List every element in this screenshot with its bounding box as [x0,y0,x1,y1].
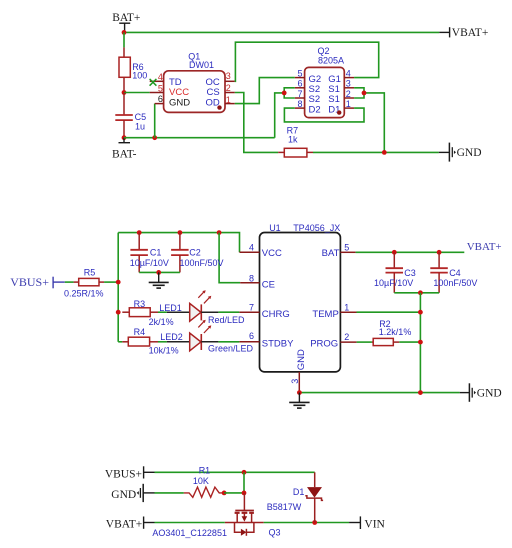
junction PROG node [418,340,423,345]
svg-text:10µF/10V: 10µF/10V [374,278,413,288]
svg-text:VCC: VCC [262,248,282,259]
wire top rail [118,233,239,253]
svg-text:VBUS+: VBUS+ [10,275,49,289]
wire C3 C4 link [394,292,439,294]
svg-text:3: 3 [346,79,351,89]
junction BAT+ node [122,30,127,35]
svg-text:C4: C4 [449,268,461,278]
no-connect X on pin 4 [150,79,157,86]
pin 6 S2 stub [295,87,305,89]
junction D1 node [312,520,317,525]
svg-text:10µF/10V: 10µF/10V [130,258,169,268]
wire column to R4 [118,341,122,343]
svg-text:R4: R4 [134,327,146,337]
svg-text:GND: GND [111,489,136,501]
svg-text:PROG: PROG [310,339,338,350]
svg-text:VBAT+: VBAT+ [452,27,489,39]
svg-text:CHRG: CHRG [262,309,290,320]
svg-text:BAT+: BAT+ [112,12,140,24]
svg-text:2k/1%: 2k/1% [149,317,174,327]
ground port GND (top) [439,143,482,162]
wire GND to R1 [155,492,184,494]
svg-text:6: 6 [297,79,302,89]
svg-text:C5: C5 [135,112,147,122]
svg-text:5: 5 [297,69,302,79]
wire to DW01 VCC pin [124,92,150,94]
svg-text:CE: CE [262,280,275,291]
svg-text:TP4056_JX: TP4056_JX [293,223,340,233]
pin 2 S1 stub [344,97,354,99]
wire BAT+ rail to VBAT+ [124,31,439,33]
junction TEMP node [418,310,423,315]
transistor Q3 AO3401 [152,493,280,538]
pin 1 D1 stub [344,107,354,109]
pin 1 OD stub [225,103,235,105]
pin 5 BAT stub [340,251,355,253]
stray junction dot inside Q1 [217,105,221,109]
wire BAT- rail [124,137,275,139]
pin 6 GND stub [155,103,164,105]
pin 4 VCC stub [240,251,260,253]
svg-text:CS: CS [206,87,219,98]
junction earth node [156,270,161,275]
svg-text:DW01: DW01 [189,60,214,70]
svg-text:VBAT+: VBAT+ [106,519,143,531]
svg-text:4: 4 [249,243,254,253]
svg-text:5: 5 [158,83,163,93]
wire LED1 to CHRG [218,311,239,313]
wire R2 to GND column [399,341,420,343]
pin 4 G1 stub [344,77,354,79]
junction C3 node [392,250,397,255]
svg-text:3: 3 [290,379,300,384]
svg-text:6: 6 [249,331,254,341]
junction S1 node [362,91,367,96]
IC U1 TP4056_JX [239,223,356,393]
wire GND column [419,293,421,393]
IC U Q1 DW01 [150,51,235,112]
svg-text:D2: D2 [309,104,321,115]
junction CE node [217,230,222,235]
junction R1 node [222,491,227,496]
port BAT- [112,138,137,161]
svg-text:D1: D1 [293,487,305,497]
svg-text:U1: U1 [269,223,281,233]
svg-text:GND: GND [477,388,502,400]
svg-text:VBAT+: VBAT+ [467,241,502,253]
IC Q2 8205A [295,46,354,118]
junction node R6/C5/VCC [122,90,127,95]
LED1 Red/LED [159,290,245,325]
wire VBUS+ row [155,471,315,473]
svg-text:VCC: VCC [169,87,189,98]
junction gate node [242,491,247,496]
pin 4 TD stub [150,80,164,82]
LED2 Green/LED [160,320,253,354]
stray junction dot inside Q2 [337,110,341,114]
pin 3 S1 stub [344,87,354,89]
junction C4 node [437,250,442,255]
junction S2 node [282,91,287,96]
svg-text:VBUS+: VBUS+ [105,468,142,480]
svg-text:C3: C3 [404,268,416,278]
svg-text:6: 6 [158,94,163,104]
svg-text:1u: 1u [135,122,145,132]
pin 6 STDBY stub [239,341,259,343]
pin 7 CHRG stub [239,311,259,313]
resistor R6 [119,47,147,92]
wire gate drop [243,472,245,493]
svg-text:5: 5 [344,243,349,253]
wire PROG to R2 [357,341,372,343]
junction R3 node [116,310,121,315]
svg-text:0.25R/1%: 0.25R/1% [64,289,104,299]
resistor R4 [122,327,178,356]
ground earth symbol (C1 C2) [149,272,169,288]
wire VCC column [117,233,119,342]
svg-text:LED1: LED1 [159,303,182,313]
wire Q3 to VIN [264,522,349,524]
svg-text:R1: R1 [199,466,211,476]
wire D2 to D1 loop [284,108,364,122]
wire R5 to node [104,281,118,283]
svg-text:Red/LED: Red/LED [208,315,245,325]
wire R1 to gate node [224,492,244,494]
svg-text:Green/LED: Green/LED [208,343,254,353]
svg-text:GND: GND [296,349,307,370]
svg-text:R3: R3 [134,299,146,309]
port VIN [349,516,385,530]
pin 5 G2 stub [295,77,305,79]
resistor R2 [372,319,411,346]
svg-text:10K: 10K [193,476,209,486]
svg-text:8: 8 [297,99,302,109]
svg-text:STDBY: STDBY [262,339,294,350]
junction BAT- node [122,135,127,140]
wire S2 pins to BAT- [275,88,295,138]
svg-text:100nF/50V: 100nF/50V [180,258,224,268]
svg-text:LED2: LED2 [160,332,183,342]
svg-text:GND: GND [169,98,190,109]
svg-text:4: 4 [346,69,351,79]
pin 3 GND stub [298,372,300,393]
net flag VBUS+ [10,275,65,289]
junction C2 node [178,230,183,235]
svg-text:8: 8 [249,274,254,284]
wire LED2 to STDBY [218,341,239,343]
junction GND rail node [418,390,423,395]
wire R3 to LED1 [158,311,167,313]
port VBAT+ (bottom) [106,517,155,531]
wire CE drop [219,233,240,283]
pin 1 TEMP stub [340,311,356,313]
wire S1 pins to GND [354,88,384,153]
svg-text:2: 2 [344,332,349,342]
resistor R1 (zigzag) [184,466,224,498]
svg-text:1: 1 [344,303,349,313]
capacitor C4 [430,252,477,292]
svg-text:2: 2 [226,83,231,93]
wire GND rail [299,392,459,394]
pin 2 PROG stub [340,341,356,343]
resistor R3 [122,299,173,327]
wire R4 to LED2 [158,341,167,343]
svg-text:AO3401_C122851: AO3401_C122851 [152,528,227,538]
svg-text:7: 7 [249,303,254,313]
capacitor C3 [374,252,416,292]
svg-text:2: 2 [346,89,351,99]
capacitor C1 [130,233,169,273]
svg-text:BAT: BAT [322,248,340,259]
pin 8 D2 stub [295,107,305,109]
svg-text:1.2k/1%: 1.2k/1% [379,327,412,337]
svg-text:GND: GND [457,147,482,159]
junction U1 GND node [297,390,302,395]
pin 7 S2 stub [295,97,305,99]
wire VBUS+ to R5 [65,281,74,283]
port VBUS+ (bottom) [105,466,155,480]
ground port GND (bottom left) [111,484,154,502]
capacitor C5 [115,93,146,138]
wire DW01 GND drop [154,104,156,138]
junction C1 node [137,230,142,235]
pin 2 CS stub [225,92,235,94]
svg-text:B5817W: B5817W [267,502,302,512]
wire R7 to GND port [313,151,439,153]
wire TEMP [357,311,421,313]
wire BAT+ down to R6 [123,32,125,47]
resistor R5 [64,267,104,298]
capacitor C2 [171,233,223,273]
junction C3C4 node [418,290,423,295]
port VBAT+ [439,27,488,39]
svg-text:Q3: Q3 [269,528,281,538]
wire BAT to VBAT+ [356,251,465,253]
port BAT+ [112,12,140,32]
pin 3 OC stub [225,80,235,82]
svg-text:3: 3 [226,71,231,81]
svg-text:10k/1%: 10k/1% [149,345,179,355]
ground earth symbol (U1) [289,393,309,409]
svg-text:C1: C1 [150,248,162,258]
svg-text:BAT-: BAT- [112,148,137,160]
junction GND rail node [382,150,387,155]
svg-text:1: 1 [226,95,231,105]
junction VBUS/gate node [242,470,247,475]
svg-text:VIN: VIN [364,519,385,531]
wire OC to G1 [235,42,379,81]
svg-text:1: 1 [346,99,351,109]
resistor R7 [278,125,313,157]
junction DW01 GND node [152,135,157,140]
svg-text:TEMP: TEMP [312,309,338,320]
svg-text:1k: 1k [288,134,298,144]
wire C1 C2 ground link [139,271,180,273]
svg-text:8205A: 8205A [318,56,344,66]
svg-text:100nF/50V: 100nF/50V [433,278,477,288]
pin 8 CE stub [240,282,259,284]
wire CS to R7 [235,93,278,153]
svg-text:C2: C2 [189,248,201,258]
svg-text:R5: R5 [84,267,96,277]
svg-text:4: 4 [158,72,163,82]
junction VBUS node [116,280,121,285]
diode D1 B5817W [267,472,323,522]
ground port GND (middle) [460,383,502,402]
svg-text:7: 7 [297,89,302,99]
wire OD to G2 [235,78,295,104]
pin 5 VCC stub [150,92,164,94]
svg-text:100: 100 [132,71,147,81]
wire VBAT+ to Q3 [155,522,225,524]
